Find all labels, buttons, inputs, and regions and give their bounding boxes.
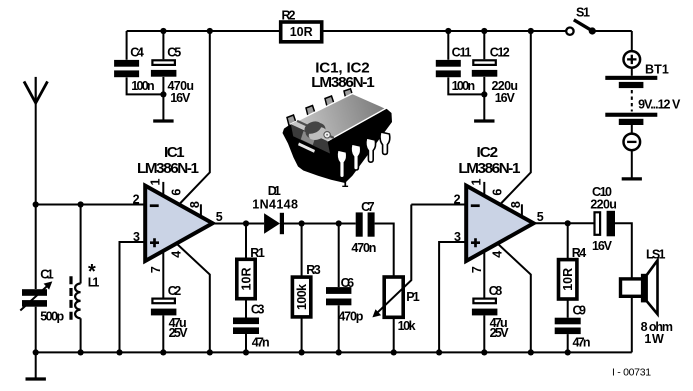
svg-text:LM386N-1: LM386N-1 — [137, 160, 200, 177]
svg-text:BT1: BT1 — [645, 63, 669, 77]
IC1 pin 3 wire to ground — [116, 242, 145, 356]
capacitor C7 — [351, 200, 393, 277]
svg-text:6: 6 — [490, 189, 504, 196]
svg-text:P1: P1 — [406, 290, 420, 304]
capacitor C2 (electrolytic) — [151, 284, 188, 355]
IC1 pin 4 wire to ground — [169, 244, 213, 356]
svg-text:LM386N-1: LM386N-1 — [458, 160, 521, 177]
svg-text:C8: C8 — [489, 284, 503, 298]
inductor L1 — [71, 205, 99, 353]
svg-text:C11: C11 — [452, 46, 472, 60]
svg-text:10R: 10R — [561, 268, 575, 291]
ground under battery — [622, 177, 642, 180]
IC2 pin 3 wire to ground — [436, 242, 466, 356]
svg-text:LM386N-1: LM386N-1 — [311, 74, 375, 91]
svg-text:C4: C4 — [130, 46, 144, 60]
loudspeaker LS1 — [621, 247, 674, 352]
svg-text:470n: 470n — [351, 241, 376, 255]
svg-text:3: 3 — [454, 230, 461, 244]
capacitor C11 — [436, 28, 485, 95]
svg-text:47n: 47n — [573, 336, 591, 350]
IC1 pin 8 stub — [188, 201, 202, 217]
DIP pin1 dot — [324, 132, 330, 138]
DIP back pins — [287, 89, 353, 126]
IC1 pin 1 stub — [148, 178, 163, 196]
svg-text:IC1: IC1 — [164, 144, 185, 161]
svg-text:5: 5 — [537, 210, 544, 224]
IC1 pin 7 wire — [149, 251, 163, 298]
svg-text:8: 8 — [509, 201, 523, 208]
svg-text:8: 8 — [188, 201, 202, 208]
DIP front side face — [291, 124, 330, 154]
capacitor C3 — [233, 303, 270, 356]
svg-text:C3: C3 — [251, 303, 265, 317]
svg-text:100n: 100n — [452, 79, 476, 93]
capacitor C9 — [555, 303, 591, 355]
svg-text:C5: C5 — [167, 46, 181, 60]
svg-text:16V: 16V — [495, 91, 516, 105]
capacitor C8 (electrolytic) — [472, 284, 509, 355]
svg-text:1N4148: 1N4148 — [252, 198, 298, 212]
IC2 pin 4 wire to ground — [490, 244, 534, 356]
capacitor C6 — [326, 224, 364, 356]
variable capacitor C1 — [20, 268, 64, 353]
wire IC2 output row with junction dot — [534, 220, 594, 226]
DIP body dark base — [283, 94, 393, 184]
op-amp IC2 — [454, 144, 544, 261]
antenna — [24, 77, 48, 289]
svg-text:25V: 25V — [169, 326, 189, 340]
svg-text:LS1: LS1 — [646, 247, 666, 261]
ground under C12 — [474, 119, 494, 122]
svg-text:10R: 10R — [239, 268, 253, 291]
svg-text:C6: C6 — [341, 276, 355, 290]
DIP mold step — [301, 131, 316, 145]
wire input row with junction dots — [33, 201, 146, 207]
svg-text:100k: 100k — [295, 284, 309, 310]
svg-text:R4: R4 — [572, 246, 587, 260]
ground symbol bottom left — [26, 352, 46, 379]
switch S1 — [566, 6, 596, 35]
svg-text:10R: 10R — [290, 25, 313, 39]
DIP package illustration — [311, 60, 375, 91]
svg-text:4: 4 — [169, 251, 183, 258]
svg-text:47n: 47n — [252, 335, 270, 349]
svg-text:1: 1 — [469, 178, 483, 185]
capacitor C10 (electrolytic) — [590, 185, 631, 279]
svg-text:16V: 16V — [170, 91, 191, 105]
svg-text:7: 7 — [149, 266, 163, 273]
IC2 pin 1 stub — [469, 178, 484, 196]
svg-text:10k: 10k — [398, 319, 416, 333]
svg-text:IC2: IC2 — [477, 144, 499, 161]
svg-text:6: 6 — [169, 189, 183, 196]
IC2 pin 2 wire — [411, 204, 466, 206]
svg-text:D1: D1 — [268, 184, 281, 198]
svg-text:C7: C7 — [361, 200, 375, 214]
svg-text:4: 4 — [490, 251, 504, 258]
svg-text:C12: C12 — [490, 46, 510, 60]
wire bottom ground rail with junction dots — [33, 349, 632, 355]
resistor R3 — [292, 224, 320, 356]
diode D1 — [252, 184, 298, 234]
svg-text:500p: 500p — [40, 309, 64, 323]
DIP notch — [298, 119, 328, 153]
DIP end ledge — [291, 121, 334, 141]
svg-text:470p: 470p — [338, 309, 363, 323]
svg-text:1: 1 — [148, 178, 162, 185]
DIP front legs — [337, 132, 390, 178]
svg-text:C2: C2 — [168, 284, 182, 298]
svg-text:C1: C1 — [40, 268, 54, 282]
IC2 pin 7 wire — [470, 251, 484, 298]
svg-text:1W: 1W — [644, 332, 664, 346]
capacitor C4 — [114, 31, 163, 94]
resistor R2 — [281, 8, 322, 42]
svg-text:C9: C9 — [573, 303, 587, 317]
op-amp IC1 — [133, 144, 223, 261]
svg-text:S1: S1 — [576, 6, 590, 20]
svg-text:100n: 100n — [131, 79, 155, 93]
svg-text:5: 5 — [216, 210, 223, 224]
wire IC1 output row with junction dots — [213, 220, 356, 226]
capacitor C5 (electrolytic) — [151, 28, 194, 120]
svg-text:I - 00731: I - 00731 — [612, 367, 651, 379]
capacitor C12 (electrolytic) — [472, 28, 518, 120]
svg-text:2: 2 — [454, 193, 461, 207]
battery BT1 — [605, 31, 681, 178]
svg-text:R3: R3 — [306, 263, 321, 277]
svg-text:1: 1 — [342, 176, 349, 190]
svg-text:25V: 25V — [490, 326, 510, 340]
svg-text:2: 2 — [133, 193, 140, 207]
resistor R1 — [237, 224, 265, 318]
wire top supply rail — [127, 30, 632, 32]
svg-text:7: 7 — [470, 266, 484, 273]
DIP body top face — [291, 94, 386, 142]
svg-text:R2: R2 — [282, 8, 296, 22]
IC2 pin 8 stub — [509, 201, 523, 217]
IC2 pin 6 wire to supply — [490, 28, 534, 205]
svg-text:L1: L1 — [88, 276, 100, 290]
svg-text:9V...12 V: 9V...12 V — [638, 97, 681, 111]
svg-text:16V: 16V — [592, 239, 613, 253]
resistor R4 — [559, 223, 587, 317]
svg-text:R1: R1 — [250, 246, 265, 260]
potentiometer P1 — [372, 205, 419, 356]
svg-text:220u: 220u — [590, 198, 617, 212]
ground under C5 — [153, 119, 173, 122]
IC1 pin 6 wire to supply — [169, 28, 213, 205]
